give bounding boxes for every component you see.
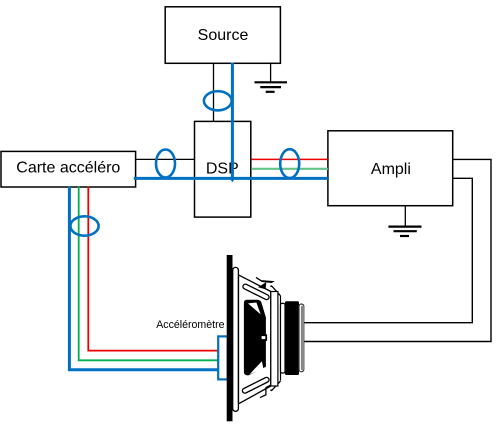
svg-text:Ampli: Ampli [371,161,411,178]
speaker back plate [299,304,304,372]
svg-text:Carte accéléro: Carte accéléro [16,159,120,176]
arrowhead blue wire [230,179,235,183]
wire ground stem Source [270,63,272,82]
cable marker ellipse DSP to Ampli [280,149,299,178]
speaker spacer ring [281,303,286,373]
block Source [165,7,280,64]
speaker baffle bar [227,255,233,421]
cable marker ellipse Carte accéléro to DSP [156,150,175,178]
wire blue Carte accéléro to accelerometer [69,186,218,369]
speaker terminal flag [260,280,275,283]
wire blue Source into DSP [231,63,234,180]
speaker terminal bracket [258,282,266,289]
svg-text:Source: Source [198,27,249,44]
speaker basket top corner edge [271,286,281,296]
speaker basket rear rim [280,296,282,381]
speaker top vent slot [245,287,266,298]
speaker back plate rim shading [301,306,304,371]
block Ampli [328,131,453,206]
cable marker ellipse below Source [204,91,232,110]
speaker basket bottom corner edge [271,381,281,391]
wire red DSP to Ampli [251,158,328,160]
ground symbol below Ampli [388,227,421,236]
wire red Carte accéléro to accelerometer [88,187,218,351]
cable marker ellipse left bundle [70,216,98,235]
wire Ampli right upper (black) [304,159,492,341]
speaker cone bottom highlight [250,361,264,374]
block Carte accéléro [1,151,136,187]
speaker [227,255,304,421]
speaker basket back band [271,292,278,387]
wire green Carte accéléro to accelerometer [79,187,219,361]
ground symbol below Source [255,82,288,92]
speaker dust cap square [261,335,267,340]
speaker bottom vent slot [245,380,267,391]
wire Source to DSP (black) [213,63,215,121]
wire ground stem Ampli [404,206,406,226]
wire Ampli right lower (black) [304,178,473,322]
speaker flange [233,267,239,411]
speaker basket outline [239,275,271,404]
svg-text:Accéléromètre: Accéléromètre [156,319,224,331]
speaker frame foot [260,385,271,398]
speaker magnet [285,301,299,375]
wire green DSP to Ampli [251,168,328,170]
speaker cone top highlight [248,303,261,315]
speaker cone (black) [244,300,266,376]
wire Carte accéléro to DSP (black) [136,158,194,160]
speaker terminal pin [256,277,261,280]
block DSP [195,121,251,217]
accelerometer box (blue) [218,336,228,379]
wire blue bus Carte accéléro to Ampli [134,177,328,180]
